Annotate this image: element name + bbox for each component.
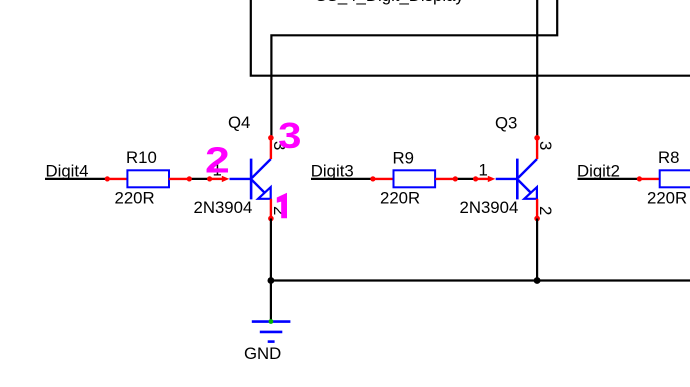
svg-text:SS_4_Digit_Display: SS_4_Digit_Display [316,0,465,5]
junction dot [187,176,192,181]
ground [244,281,290,364]
wire R9 pin1 (red) [373,178,394,180]
svg-text:2N3904: 2N3904 [460,198,519,217]
collector diagonal [518,159,537,178]
wire Q3 emitter to ground rail [536,219,538,281]
wire R10 pin1 (red) [107,178,128,180]
svg-text:220R: 220R [380,188,420,207]
wire segment to Q4 base [189,178,209,180]
base lead [230,178,252,180]
svg-text:220R: 220R [647,188,687,207]
wire R10 pin2 (red) [169,178,190,180]
wire ground rail [271,279,690,281]
wire GND stem [270,281,272,322]
svg-text:3: 3 [278,115,301,156]
svg-text:Digit3: Digit3 [311,161,354,180]
emitter pin (red) [270,199,272,219]
svg-text:R10: R10 [126,148,157,167]
collector pin (red) [536,138,538,159]
svg-text:R8: R8 [658,148,679,167]
wire Digit3 input [311,178,373,180]
emitter terminal dot [268,216,274,222]
collector pin (red) [270,138,272,159]
svg-text:2: 2 [205,139,230,180]
emitter arrow (open triangle) [258,187,271,199]
wire Digit4 input [45,178,107,180]
collector diagonal [252,159,271,178]
emitter diagonal [252,180,265,193]
svg-text:Q3: Q3 [495,113,517,132]
svg-text:GND: GND [244,344,281,363]
wire Q4 base pin (red with arrow) [210,178,223,180]
junction dot [453,176,458,181]
wire R8 pin1 (red) [639,178,660,180]
green terminal dot [269,319,274,324]
svg-text:220R: 220R [115,188,155,207]
junction dot [637,176,642,181]
collector terminal dot [534,135,540,141]
transistor Q3 [460,113,556,221]
resistor R8 [660,170,690,187]
emitter pin (red) [536,199,538,219]
bar [250,159,253,200]
resistor R9 [394,170,436,187]
base lead [496,178,518,180]
collector terminal dot [268,135,274,141]
emitter diagonal [518,180,531,193]
svg-text:R9: R9 [393,148,414,167]
wire R9 pin2 (red) [435,178,455,180]
wire Digit2 input [578,178,640,180]
wire Digit1 net: vertical from display pin down and right to off-screen [251,0,690,76]
bar [516,159,519,200]
svg-text:Digit2: Digit2 [577,161,620,180]
svg-text:Digit4: Digit4 [46,161,89,180]
junction dot [534,277,541,284]
junction dot [105,176,110,181]
annotation 1 (emitter) [277,193,287,219]
wire segment to Q3 base [455,178,475,180]
svg-text:1: 1 [478,160,487,179]
junction dot [473,176,478,181]
wire Digit4 net: display pin to Q4 collector [271,0,557,138]
junction dot [268,277,275,284]
wire Digit3 net: display pin to Q3 collector [536,0,538,138]
emitter arrow (open triangle) [524,187,537,199]
svg-text:3: 3 [536,141,555,150]
annotation 3 (collector) [278,115,301,156]
svg-text:Q4: Q4 [228,113,250,132]
emitter terminal dot [534,216,540,222]
annotation 2 (base) [205,139,230,180]
wire Q4 emitter to ground rail [270,219,272,281]
resistor R10 [127,170,169,187]
junction dot [370,176,375,181]
svg-text:2: 2 [536,206,555,215]
transistor Q4 [194,113,290,221]
wire Q3 base pin (red with arrow) [476,178,489,180]
svg-text:2N3904: 2N3904 [194,198,253,217]
junction dot [207,176,212,181]
